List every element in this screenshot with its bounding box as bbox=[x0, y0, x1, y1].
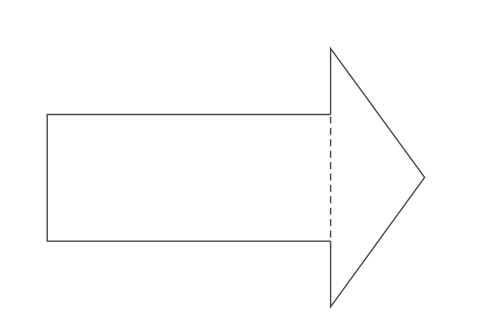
arrow head triangle bbox=[331, 49, 425, 307]
arrow shaft rectangle bbox=[47, 115, 330, 242]
dashed hidden edge bbox=[330, 117, 332, 241]
